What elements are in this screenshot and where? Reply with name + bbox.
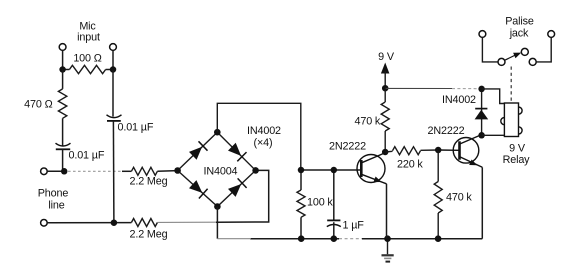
capacitor 1uF (333, 170, 335, 220)
jack contact mid-left (498, 58, 505, 65)
svg-text:220 k: 220 k (397, 159, 423, 171)
capacitor 0.01uF left (56, 143, 71, 146)
phone line terminal top (41, 168, 48, 175)
wire Q1 emitter down (386, 184, 388, 239)
svg-text:470 k: 470 k (355, 116, 381, 128)
jack terminal left (479, 31, 486, 38)
capacitor 0.01uF right (112, 70, 114, 117)
node bridge right (252, 167, 259, 174)
svg-text:Phone: Phone (38, 188, 69, 200)
svg-text:IN4002: IN4002 (247, 125, 281, 137)
svg-text:470 k: 470 k (446, 192, 472, 204)
node 9V (382, 85, 389, 92)
node signal left (298, 167, 305, 174)
resistor 470k second (437, 150, 439, 182)
node bus 100k (298, 235, 305, 242)
wire mic right stem (112, 50, 114, 69)
svg-text:2.2 Meg: 2.2 Meg (130, 229, 168, 241)
svg-text:IN4002: IN4002 (442, 94, 476, 106)
svg-text:470 Ω: 470 Ω (24, 99, 52, 111)
node bridge bottom (214, 203, 221, 210)
mic input terminal left (59, 44, 66, 51)
svg-text:(×4): (×4) (254, 137, 273, 149)
svg-text:line: line (48, 200, 64, 212)
node bus ground (384, 235, 391, 242)
wire bridge bottom to bus (216, 207, 218, 239)
relay coil (504, 103, 518, 137)
svg-text:Relay: Relay (503, 154, 531, 166)
node bridge top (214, 129, 221, 136)
svg-text:9 V: 9 V (509, 143, 526, 155)
node mic left (59, 66, 66, 73)
phone line terminal bottom (41, 220, 48, 227)
diode D4 bottom-right (228, 184, 241, 197)
svg-text:9 V: 9 V (378, 51, 395, 63)
wire bridge top to signal node (217, 103, 300, 170)
wire 9V rail to relay (385, 87, 452, 89)
jack switch arm arrow (505, 55, 517, 61)
transistor Q2 2N2222 (453, 138, 479, 164)
svg-text:2N2222: 2N2222 (428, 125, 465, 137)
node cap top (331, 167, 338, 174)
diode IN4002 flyback (481, 89, 483, 135)
wire phone top (47, 170, 64, 172)
svg-text:Palise: Palise (505, 16, 534, 28)
resistor 470 ohm (62, 70, 64, 89)
wire jack left leg (482, 37, 498, 62)
resistor 220k (385, 150, 392, 153)
resistor 2.2 Meg top (131, 167, 157, 175)
svg-text:0.01 µF: 0.01 µF (118, 122, 154, 134)
node bus cap (331, 235, 338, 242)
node phone bottom (111, 219, 118, 226)
mechanical link dashed (510, 67, 512, 102)
svg-text:0.01 µF: 0.01 µF (69, 150, 105, 162)
wire relay top (482, 89, 505, 104)
ground symbol (387, 239, 389, 255)
wire Q2 emitter down (481, 167, 483, 238)
svg-text:100 Ω: 100 Ω (73, 53, 101, 65)
wire mic left stem (62, 50, 64, 69)
node mic right (110, 66, 117, 73)
svg-text:IN4004: IN4004 (204, 166, 238, 178)
svg-text:1 µF: 1 µF (343, 220, 365, 232)
node diode top (478, 86, 485, 93)
wire ground bus (250, 238, 482, 240)
resistor 2.2 Meg bottom (131, 219, 157, 227)
jack terminal right (548, 31, 555, 38)
resistor 100k (300, 170, 302, 190)
node diode bottom (478, 132, 485, 139)
jack contact mid-center (521, 48, 528, 55)
node Q2 base junction (435, 147, 442, 154)
wire signal node row (301, 169, 361, 171)
diode D1 top-left (189, 147, 202, 160)
node phone top (61, 168, 68, 175)
resistor 100 ohm (63, 69, 70, 71)
resistor 470k first (384, 88, 386, 102)
svg-text:input: input (77, 32, 100, 44)
node Q1 collector (382, 149, 389, 156)
node bus 470k (435, 235, 442, 242)
wire phone bottom (47, 222, 131, 224)
diode D2 top-right (228, 143, 241, 156)
wire jack right leg (536, 37, 551, 62)
svg-text:2N2222: 2N2222 (329, 141, 366, 153)
diode D3 bottom-left (189, 180, 202, 193)
svg-text:100 k: 100 k (307, 197, 333, 209)
mic input terminal right (110, 44, 117, 51)
jack contact mid-right (529, 58, 536, 65)
diode bridge wires (178, 132, 256, 206)
transistor Q1 2N2222 (357, 155, 385, 183)
wire relay bottom (482, 134, 505, 136)
svg-text:jack: jack (509, 28, 529, 40)
svg-text:2.2 Meg: 2.2 Meg (130, 176, 168, 188)
node bridge left (174, 167, 181, 174)
9V supply arrow (381, 63, 390, 74)
